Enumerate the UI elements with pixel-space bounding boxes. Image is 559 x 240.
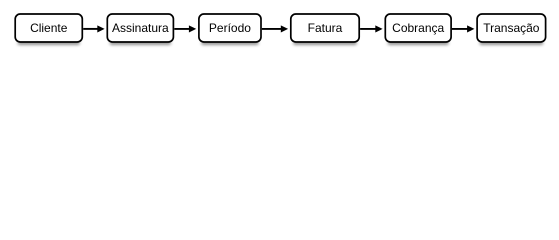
- svg-text:Cobrança: Cobrança: [392, 21, 444, 35]
- svg-text:Transação: Transação: [483, 21, 540, 35]
- svg-text:Fatura: Fatura: [308, 21, 343, 35]
- svg-text:Cliente: Cliente: [30, 21, 68, 35]
- svg-text:Período: Período: [209, 21, 251, 35]
- svg-text:Assinatura: Assinatura: [112, 21, 169, 35]
